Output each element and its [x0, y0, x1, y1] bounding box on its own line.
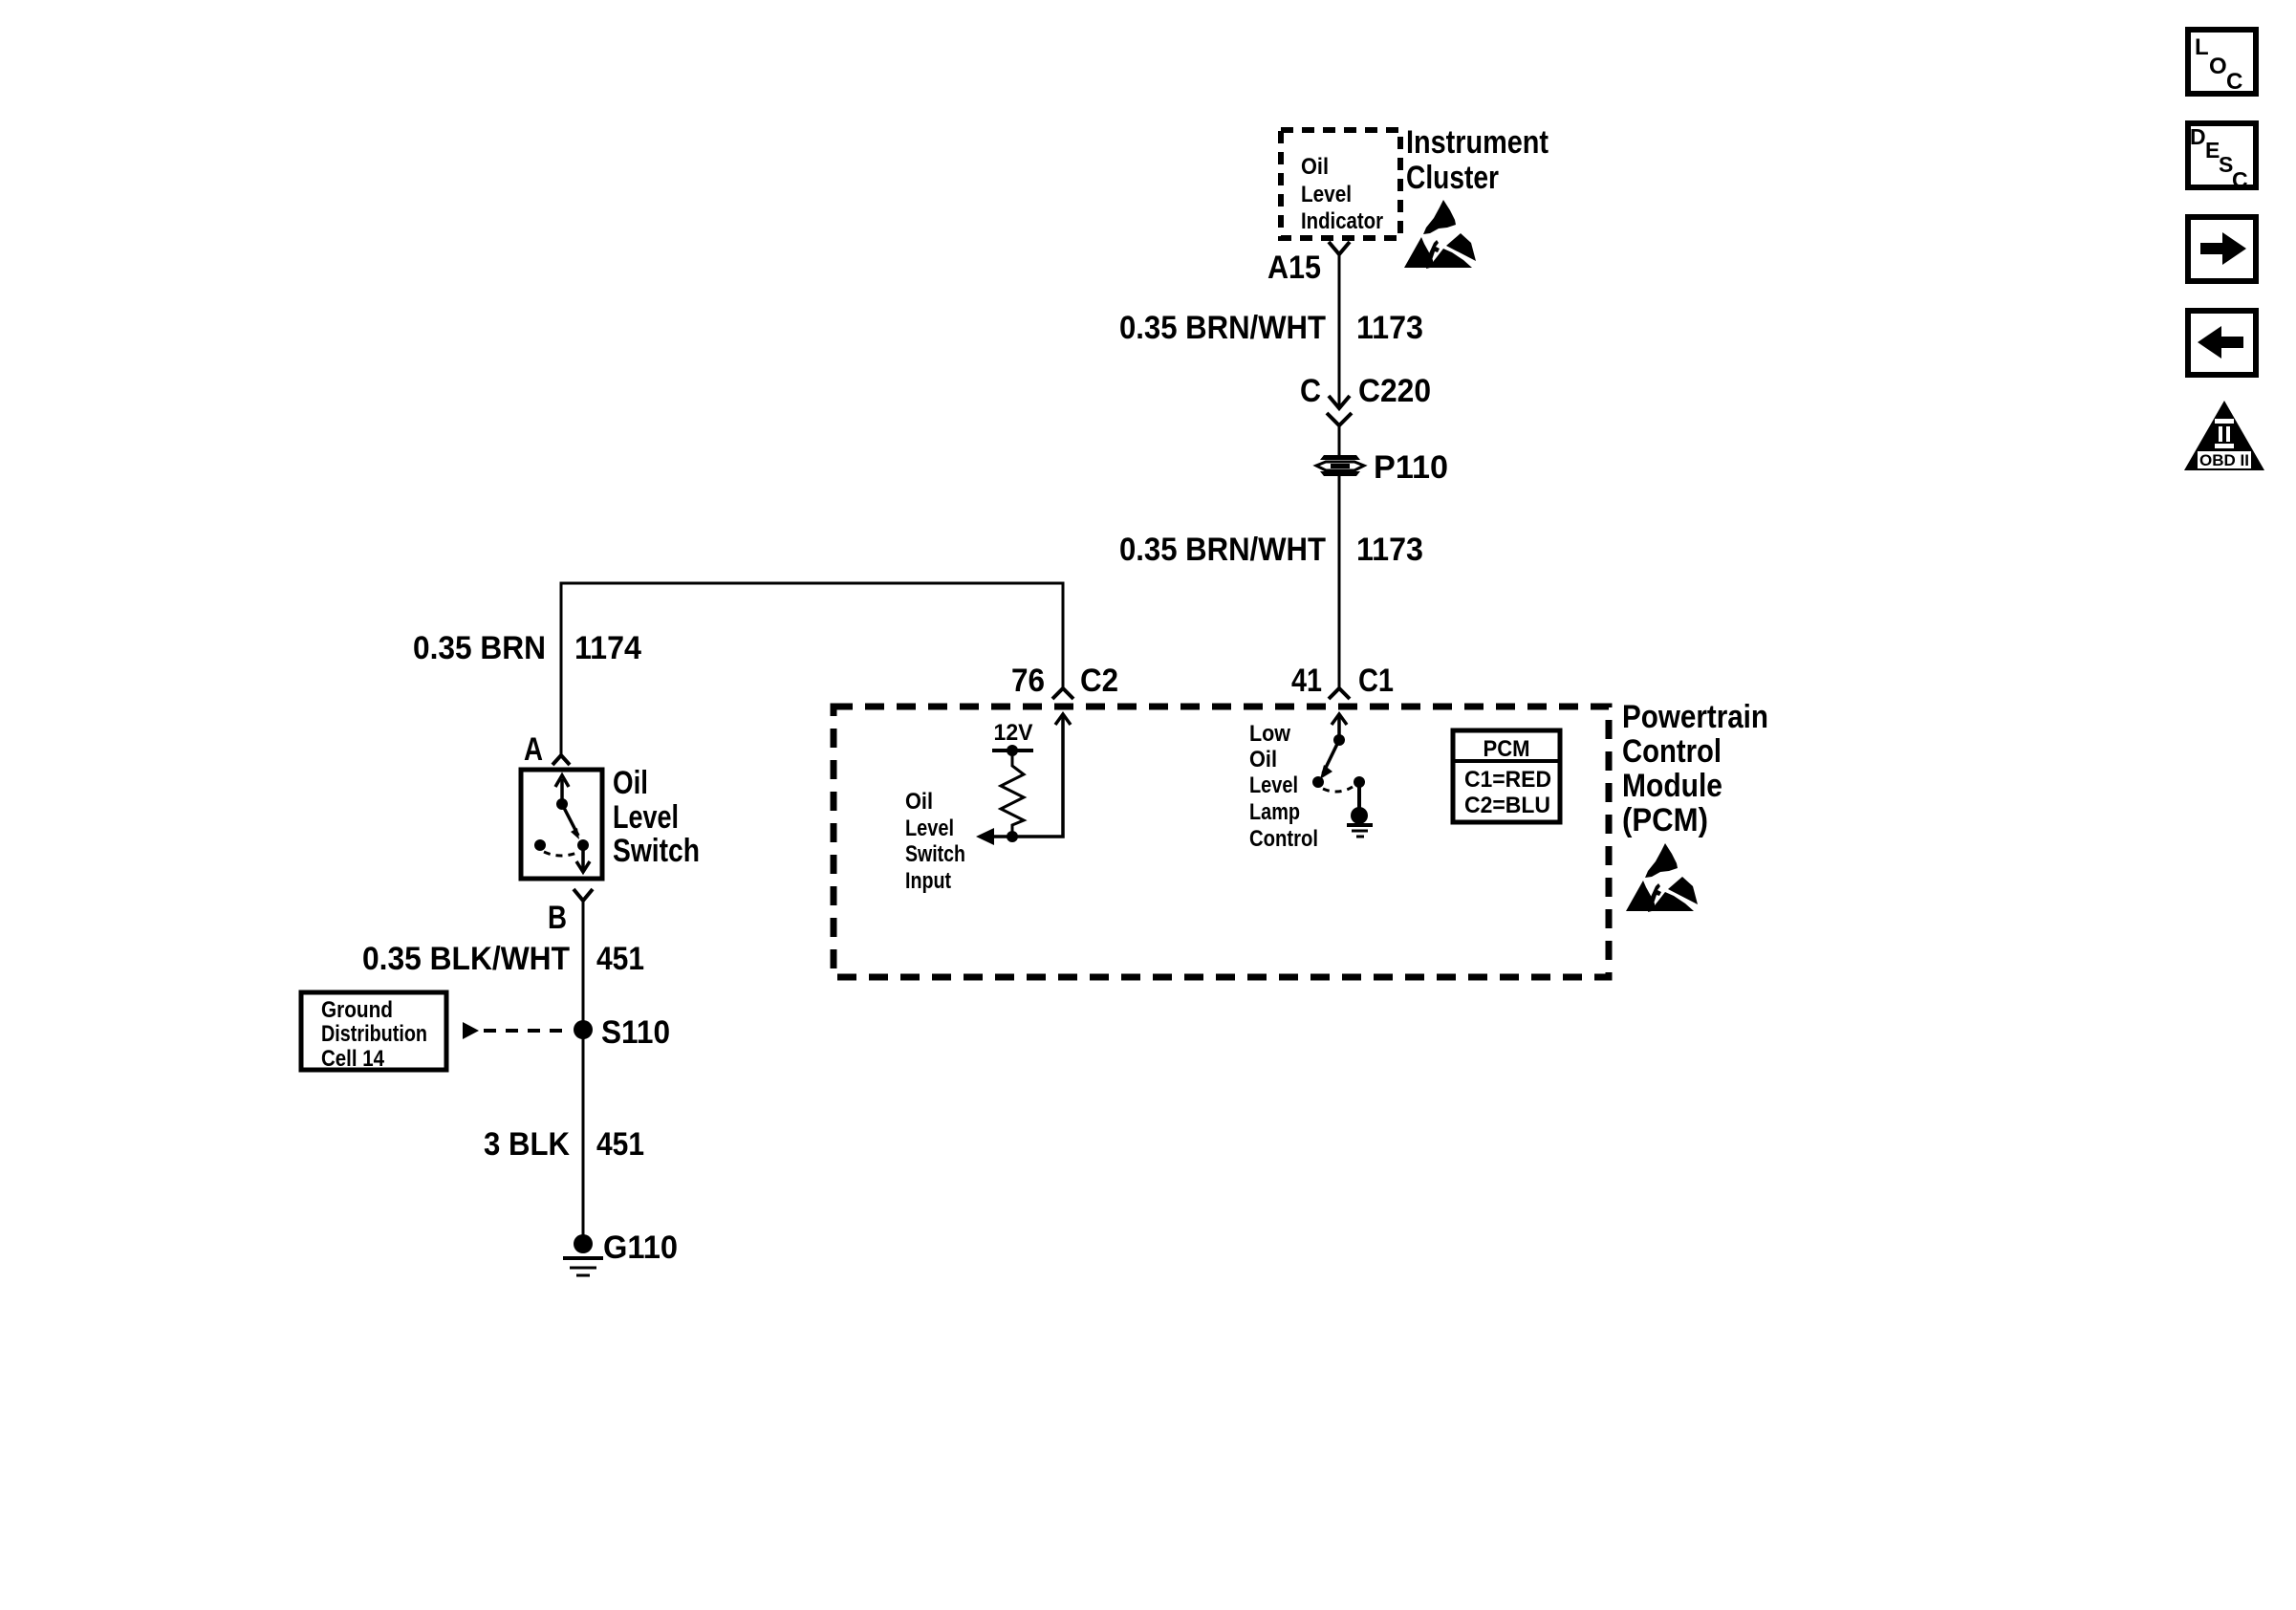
wire 451 upper segment	[582, 900, 585, 1030]
svg-text:76: 76	[1011, 663, 1045, 699]
svg-text:PCM: PCM	[1484, 736, 1530, 762]
PCM dashed box	[834, 707, 1609, 977]
svg-text:Control: Control	[1249, 826, 1318, 852]
svg-text:Cell 14: Cell 14	[321, 1046, 385, 1072]
label Oil Level Switch	[613, 765, 700, 869]
svg-text:L: L	[2195, 34, 2209, 60]
splice S110	[574, 1020, 593, 1039]
svg-text:Indicator: Indicator	[1301, 208, 1383, 234]
svg-text:D: D	[2190, 124, 2206, 149]
svg-text:P110: P110	[1374, 449, 1448, 486]
svg-text:12V: 12V	[994, 720, 1033, 746]
svg-text:Input: Input	[905, 868, 951, 894]
svg-text:Oil: Oil	[1301, 154, 1329, 180]
svg-text:Level: Level	[905, 816, 954, 841]
svg-text:S110: S110	[601, 1014, 670, 1051]
svg-text:0.35 BRN/WHT: 0.35 BRN/WHT	[1119, 532, 1326, 568]
svg-text:C: C	[2232, 167, 2248, 192]
svg-text:C: C	[1300, 373, 1321, 409]
label Oil Level Switch Input	[905, 789, 965, 894]
wire label 0.35 BRN 1174	[413, 630, 641, 666]
svg-text:3 BLK: 3 BLK	[484, 1126, 570, 1163]
wire 1173 upper segment	[1338, 253, 1341, 405]
wire 451 lower segment	[582, 1030, 585, 1235]
oil level switch internals	[534, 775, 590, 872]
internal ground (PCM)	[1347, 782, 1373, 837]
label C C220	[1300, 373, 1431, 409]
svg-text:Instrument: Instrument	[1406, 124, 1549, 161]
label A15	[1267, 250, 1321, 286]
ESD symbol (instrument cluster)	[1404, 200, 1476, 269]
pin A chevron	[552, 755, 570, 765]
connector pin A15 out-symbol	[1329, 242, 1350, 254]
instrument cluster dashed box	[1281, 130, 1400, 238]
instrument cluster label	[1406, 124, 1549, 196]
ground distribution cell box	[301, 992, 446, 1072]
svg-text:G110: G110	[603, 1229, 678, 1266]
svg-text:C1=RED: C1=RED	[1464, 767, 1551, 793]
wire 1173 lower segment	[1338, 476, 1341, 690]
wire label 0.35 BRN/WHT 1173 lower	[1119, 532, 1423, 568]
svg-text:Oil: Oil	[613, 765, 648, 801]
oil level switch box	[521, 770, 602, 879]
pin C2 entry arrow (inside PCM)	[989, 714, 1071, 837]
svg-text:C2=BLU: C2=BLU	[1464, 793, 1550, 818]
label Powertrain Control Module (PCM)	[1622, 699, 1768, 838]
svg-text:1173: 1173	[1356, 310, 1423, 346]
wire label 0.35 BRN/WHT 1173 upper	[1119, 310, 1423, 346]
label B	[548, 900, 567, 936]
svg-text:Level: Level	[1249, 772, 1298, 798]
svg-text:0.35 BRN/WHT: 0.35 BRN/WHT	[1119, 310, 1326, 346]
icon forward arrow	[2188, 217, 2256, 281]
svg-text:B: B	[548, 900, 567, 936]
svg-text:41: 41	[1291, 663, 1322, 699]
icon LOC	[2188, 30, 2256, 95]
label 76 C2	[1011, 663, 1118, 699]
svg-text:451: 451	[596, 941, 644, 977]
svg-text:Lamp: Lamp	[1249, 799, 1300, 825]
dashed reference line	[484, 1029, 571, 1033]
ESD symbol (PCM)	[1626, 843, 1698, 912]
label 12V	[994, 720, 1033, 746]
low oil level lamp control switch	[1312, 734, 1365, 792]
svg-text:A15: A15	[1267, 250, 1321, 286]
icon OBD II triangle	[2184, 401, 2264, 470]
svg-text:C1: C1	[1358, 663, 1394, 699]
reference arrow	[463, 1022, 479, 1039]
icon DESC	[2188, 123, 2256, 192]
svg-text:C: C	[2226, 69, 2242, 95]
svg-text:Oil: Oil	[905, 789, 933, 815]
svg-text:Module: Module	[1622, 768, 1722, 804]
svg-text:Control: Control	[1622, 733, 1722, 770]
label Low Oil Level Lamp Control	[1249, 721, 1318, 852]
icon back arrow	[2188, 311, 2256, 375]
svg-text:0.35 BRN: 0.35 BRN	[413, 630, 546, 666]
svg-text:Switch: Switch	[905, 841, 965, 867]
connector C220 inline symbol	[1327, 396, 1352, 455]
label A	[524, 731, 543, 768]
label P110	[1374, 449, 1448, 486]
pin C1 entry arrow (inside PCM)	[1332, 714, 1347, 740]
pin 76 C2 entry chevron	[1052, 688, 1073, 699]
svg-text:Level: Level	[1301, 182, 1352, 207]
svg-text:O: O	[2209, 54, 2227, 79]
svg-text:Cluster: Cluster	[1406, 160, 1499, 196]
svg-text:Switch: Switch	[613, 833, 700, 869]
pass-through grommet P110	[1316, 455, 1364, 476]
PCM connector color table	[1453, 730, 1560, 822]
label 41 C1	[1291, 663, 1394, 699]
svg-text:0.35 BLK/WHT: 0.35 BLK/WHT	[362, 941, 570, 977]
wire 1174 (circuit to pin A and C2)	[561, 583, 1063, 754]
svg-text:Distribution: Distribution	[321, 1021, 427, 1047]
wire label 0.35 BLK/WHT 451	[362, 941, 644, 977]
svg-text:Powertrain: Powertrain	[1622, 699, 1768, 735]
pin B chevron	[574, 889, 593, 901]
pull-up resistor 12V	[992, 745, 1033, 842]
svg-text:OBD II: OBD II	[2199, 451, 2249, 469]
oil level switch input arrow	[976, 828, 994, 845]
svg-text:Low: Low	[1249, 721, 1290, 747]
svg-text:Ground: Ground	[321, 997, 393, 1023]
svg-text:451: 451	[596, 1126, 644, 1163]
label G110	[603, 1229, 678, 1266]
svg-text:1174: 1174	[574, 630, 641, 666]
svg-text:C220: C220	[1358, 373, 1431, 409]
svg-text:Level: Level	[613, 799, 679, 836]
svg-text:1173: 1173	[1356, 532, 1423, 568]
ground G110	[563, 1234, 603, 1275]
svg-text:Oil: Oil	[1249, 747, 1277, 772]
oil level indicator label	[1301, 154, 1383, 234]
pin 41 C1 entry chevron	[1329, 688, 1350, 699]
label S110	[601, 1014, 670, 1051]
svg-text:(PCM): (PCM)	[1622, 802, 1708, 838]
svg-text:C2: C2	[1080, 663, 1118, 699]
svg-text:A: A	[524, 731, 543, 768]
wire label 3 BLK 451	[484, 1126, 644, 1163]
